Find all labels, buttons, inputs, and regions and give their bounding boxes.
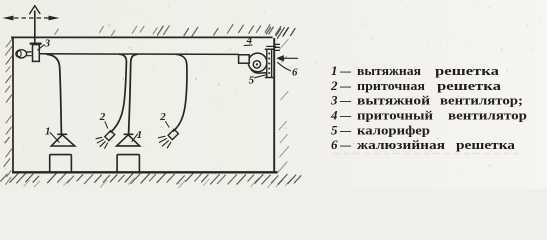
svg-text:приточная: приточная [357,78,425,93]
svg-text:6: 6 [292,67,298,79]
svg-text:жалюзийная: жалюзийная [357,137,445,152]
svg-text:вытяжной: вытяжной [357,93,431,108]
svg-text:5: 5 [249,75,255,87]
svg-text:калорифер: калорифер [357,122,430,137]
svg-text:вентилятор: вентилятор [448,108,527,123]
svg-text:решетка: решетка [456,137,516,152]
svg-text:6: 6 [331,137,338,152]
svg-text:—: — [339,93,352,108]
svg-text:вентилятор;: вентилятор; [440,93,523,108]
svg-text:1: 1 [331,63,338,78]
svg-text:5: 5 [331,122,338,137]
svg-text:2: 2 [159,111,166,123]
svg-text:—: — [339,108,352,123]
svg-text:—: — [339,63,352,78]
svg-text:1: 1 [137,129,143,141]
svg-text:вытяжная: вытяжная [357,63,421,78]
svg-text:3: 3 [330,93,338,108]
svg-text:—: — [339,137,352,152]
svg-text:2: 2 [330,78,338,93]
svg-text:1: 1 [45,125,51,137]
svg-text:4: 4 [246,35,253,47]
svg-text:—: — [339,78,352,93]
svg-text:—: — [339,122,352,137]
svg-text:решетка: решетка [435,63,500,78]
svg-text:3: 3 [44,37,51,49]
svg-text:2: 2 [99,111,106,123]
svg-text:приточный: приточный [357,108,434,123]
svg-text:4: 4 [330,108,338,123]
svg-text:решетка: решетка [437,78,502,93]
